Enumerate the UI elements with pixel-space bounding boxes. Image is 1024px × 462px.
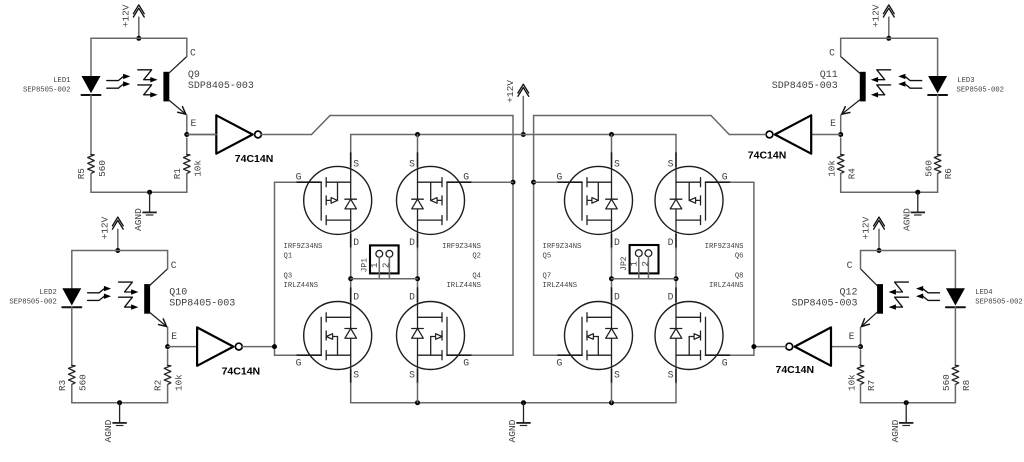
svg-text:D: D [668,292,674,303]
svg-text:E: E [830,118,836,129]
svg-text:S: S [353,159,359,170]
LED3 light arrows [898,74,922,89]
svg-text:G: G [722,357,728,368]
transistor Q6 IRF9Z34NS [655,153,744,261]
svg-text:R6: R6 [943,168,954,179]
wire [350,383,352,403]
node [415,276,420,281]
wire [611,248,613,288]
wire [937,95,939,155]
node [531,180,536,185]
wire [954,307,956,365]
svg-text:74C14N: 74C14N [235,153,274,165]
wire S bus +12V [351,134,676,136]
phototransistor Q11 [772,38,891,134]
wire motor output left [351,278,418,280]
wire [861,250,956,252]
wire [954,251,956,289]
node [415,132,420,137]
svg-text:2: 2 [641,261,651,266]
wire [71,307,73,365]
svg-text:SDP8405-003: SDP8405-003 [772,81,838,92]
LED1 light arrows [107,74,131,89]
ground AGND (top-left) [133,190,157,231]
svg-text:C: C [190,48,196,59]
svg-text:S: S [409,159,415,170]
svg-text:G: G [556,357,562,368]
wire [954,385,956,403]
wire [72,402,168,404]
svg-text:G: G [722,171,728,182]
power +12V (top-left) [120,4,144,41]
wire gate bus left-bridge right [512,116,514,356]
svg-text:560: 560 [941,374,952,391]
svg-text:74C14N: 74C14N [776,364,815,376]
svg-text:SEP8505-002: SEP8505-002 [9,299,56,307]
svg-text:1: 1 [370,263,380,268]
wire gate Q3 [275,354,297,356]
power +12V (center) [505,80,529,137]
svg-text:+12V: +12V [120,4,131,27]
transistor Q2 IRF9Z34NS [397,153,482,261]
ground AGND (top-right) [901,190,925,231]
wire [417,383,419,403]
wire [71,251,73,289]
svg-text:Q11: Q11 [820,70,838,81]
resistor R6 [923,155,954,180]
resistor R3 [57,365,89,391]
wire [186,174,188,193]
wire gate Q5 [534,181,557,183]
resistor R8 [941,365,972,391]
svg-text:R1: R1 [172,168,183,180]
svg-text:Q7: Q7 [543,273,552,281]
svg-text:JP2: JP2 [620,256,629,271]
svg-text:D: D [353,237,359,248]
inverter U1B 74C14N [748,115,841,161]
svg-text:D: D [353,292,359,303]
wire [350,135,352,153]
power +12V (bottom-left) [99,216,123,253]
wire gate Q6 [731,181,754,183]
node E junction [858,344,863,349]
svg-text:D: D [409,292,415,303]
wire [90,95,92,155]
svg-text:IRLZ44NS: IRLZ44NS [446,282,481,290]
svg-text:G: G [296,357,302,368]
transistor Q1 IRF9Z34NS [284,153,372,261]
svg-text:IRF9Z34NS: IRF9Z34NS [442,243,481,251]
svg-text:SEP8505-002: SEP8505-002 [975,299,1022,307]
svg-text:560: 560 [97,160,108,177]
LED4 [946,288,1023,307]
svg-text:IRLZ44NS: IRLZ44NS [709,282,744,290]
wire [90,174,92,193]
resistor R5 [76,155,108,180]
svg-text:IRLZ44NS: IRLZ44NS [543,282,578,290]
transistor Q5 IRF9Z34NS [543,153,633,261]
svg-text:AGND: AGND [103,419,114,442]
svg-text:C: C [171,260,177,271]
svg-text:R4: R4 [846,168,857,180]
connector JP2 [620,245,658,279]
svg-text:LED4: LED4 [975,289,992,297]
svg-text:IRF9Z34NS: IRF9Z34NS [705,243,744,251]
node E junction [165,344,170,349]
svg-text:10k: 10k [827,160,838,177]
svg-text:S: S [353,370,359,381]
node [609,276,614,281]
svg-text:G: G [463,171,469,182]
node [511,180,516,185]
svg-text:Q9: Q9 [188,70,200,81]
ground AGND (bottom-right) [890,400,914,442]
LED1 [23,76,100,95]
svg-text:D: D [409,237,415,248]
node E junction [184,132,189,137]
svg-text:S: S [409,370,415,381]
wire motor output right [612,278,677,280]
wire [675,383,677,403]
wire [841,37,938,39]
svg-text:10k: 10k [193,160,204,177]
svg-text:E: E [171,331,177,342]
wire [675,135,677,153]
wire [754,346,786,348]
transistor Q3 IRLZ44NS [284,273,372,383]
svg-text:560: 560 [923,160,934,177]
node [415,400,420,405]
svg-text:SEP8505-002: SEP8505-002 [957,86,1004,94]
wire [91,37,187,39]
wire [262,116,513,135]
wire [417,135,419,153]
svg-text:S: S [668,370,674,381]
phototransistor Q10 [119,251,236,347]
connector JP1 [361,245,399,278]
wire gate bus right-bridge right [753,182,755,355]
LED4 light arrows [916,286,940,301]
svg-text:Q1: Q1 [284,253,293,261]
wire gate Q4 [472,354,513,356]
svg-text:AGND: AGND [901,208,912,231]
svg-text:AGND: AGND [133,208,144,231]
power +12V (bottom-right) [861,216,885,253]
svg-text:D: D [614,237,620,248]
phototransistor Q9 [138,38,254,134]
wire [90,38,92,76]
wire gate Q1 [275,181,297,183]
wire [841,191,938,193]
wire [611,383,613,403]
svg-text:IRF9Z34NS: IRF9Z34NS [543,243,582,251]
inverter U1D 74C14N [776,327,861,376]
wire gate bus left-bridge left [274,182,276,355]
svg-text:AGND: AGND [890,419,901,442]
node [348,276,353,281]
wire [167,385,169,403]
node [609,400,614,405]
svg-text:10k: 10k [173,374,184,391]
svg-text:R8: R8 [961,380,972,391]
svg-text:R2: R2 [153,380,164,391]
svg-text:SDP8405-003: SDP8405-003 [169,299,235,310]
svg-text:LED1: LED1 [53,77,70,85]
svg-text:+12V: +12V [505,80,516,103]
svg-text:G: G [296,171,302,182]
node [272,344,277,349]
svg-text:74C14N: 74C14N [222,365,261,377]
resistor R7 [846,350,877,391]
ground AGND (center) [507,400,531,442]
svg-text:Q5: Q5 [543,253,552,261]
phototransistor Q12 [791,251,908,347]
wire [937,174,939,193]
wire [190,134,216,136]
svg-text:D: D [668,237,674,248]
ground AGND (bottom-left) [103,400,127,442]
wire [350,248,352,288]
svg-text:E: E [191,118,197,129]
power +12V (top-right) [870,4,894,41]
svg-text:S: S [614,159,620,170]
svg-text:R7: R7 [866,380,877,391]
wire [611,135,613,153]
svg-text:IRF9Z34NS: IRF9Z34NS [284,243,323,251]
svg-text:2: 2 [382,263,392,268]
svg-text:Q8: Q8 [735,273,744,281]
svg-text:1: 1 [630,261,640,266]
wire [72,250,168,252]
svg-text:S: S [668,159,674,170]
svg-text:LED2: LED2 [40,289,57,297]
svg-text:G: G [463,357,469,368]
inverter U1A 74C14N [187,115,274,165]
svg-text:E: E [849,331,855,342]
svg-text:D: D [614,292,620,303]
transistor Q8 IRLZ44NS [655,273,744,383]
node E junction [838,132,843,137]
node [674,276,679,281]
svg-text:IRLZ44NS: IRLZ44NS [284,282,319,290]
svg-text:R5: R5 [76,168,87,179]
resistor R2 [153,350,185,391]
wire bottom AGND bus [351,402,676,404]
wire [861,402,956,404]
LED2 light arrows [88,286,112,301]
wire gate Q8 [731,354,754,356]
svg-text:Q2: Q2 [472,253,481,261]
svg-text:SDP8405-003: SDP8405-003 [188,81,254,92]
transistor Q7 IRLZ44NS [543,273,633,383]
wire [71,385,73,403]
wire [860,385,862,403]
node [751,344,756,349]
svg-text:SDP8405-003: SDP8405-003 [791,299,857,310]
wire gate Q7 [534,354,557,356]
svg-text:R3: R3 [57,380,68,391]
LED2 [9,288,81,307]
svg-text:10k: 10k [846,374,857,391]
svg-text:C: C [847,260,853,271]
wire gate Q2 [472,181,513,183]
node [609,132,614,137]
wire gate bus right-bridge left [533,116,535,356]
svg-text:+12V: +12V [870,4,881,27]
inverter U1C 74C14N [168,327,261,377]
svg-text:74C14N: 74C14N [748,150,787,162]
transistor Q4 IRLZ44NS [397,273,482,383]
svg-text:Q12: Q12 [839,288,857,299]
wire [242,346,274,348]
wire [91,191,187,193]
svg-text:Q3: Q3 [284,273,293,281]
wire [534,116,766,135]
wire [417,248,419,288]
resistor R1 [172,138,204,179]
svg-text:SEP8505-002: SEP8505-002 [23,86,70,94]
LED3 [928,76,1004,95]
svg-text:+12V: +12V [861,216,872,239]
wire [840,174,842,193]
svg-text:Q6: Q6 [735,253,744,261]
svg-text:560: 560 [78,374,89,391]
svg-text:C: C [829,48,835,59]
svg-text:G: G [556,171,562,182]
svg-text:LED3: LED3 [957,77,974,85]
svg-text:JP1: JP1 [361,258,370,273]
svg-text:Q4: Q4 [472,273,481,281]
resistor R4 [827,138,858,179]
wire [937,38,939,76]
svg-text:S: S [614,370,620,381]
svg-text:Q10: Q10 [169,288,187,299]
wire [675,248,677,288]
svg-text:AGND: AGND [507,419,518,442]
svg-text:+12V: +12V [99,216,110,239]
